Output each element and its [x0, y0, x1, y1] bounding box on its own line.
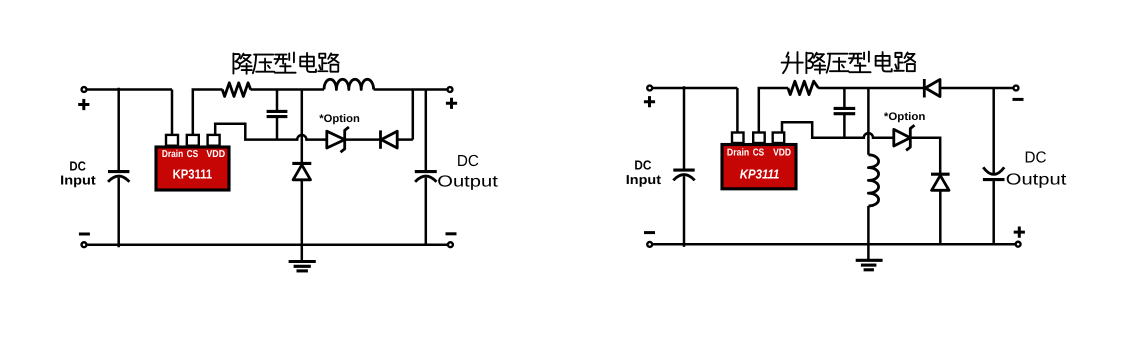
inductor L1	[324, 79, 374, 89]
diode D4 vertical right	[931, 174, 950, 244]
terminal: output plus right	[1016, 242, 1021, 247]
wire: drain riser	[171, 90, 174, 135]
inductor L2 vertical	[868, 155, 878, 206]
title: 降压型电路 (buck circuit)	[233, 52, 338, 73]
wire: switch node drop	[301, 90, 304, 164]
capacitor C4 input right	[673, 170, 694, 247]
label: minus input right	[644, 231, 655, 234]
ground left	[289, 262, 316, 271]
label: *Option left	[319, 113, 360, 125]
svg-text:*Option: *Option	[884, 111, 926, 123]
svg-text:CS: CS	[753, 148, 765, 159]
label: plus input right	[644, 96, 655, 107]
svg-text:VDD: VDD	[773, 148, 791, 159]
capacitor C3 output	[415, 90, 437, 245]
label: minus output	[446, 232, 457, 235]
svg-text:Input: Input	[60, 173, 96, 188]
svg-text:Drain: Drain	[727, 148, 749, 159]
diode D3 output rail	[924, 79, 940, 98]
terminal: DC input +	[82, 87, 87, 92]
terminal: DC output +	[448, 87, 453, 92]
wire: option riser to output	[412, 90, 415, 140]
terminal: DC input + right	[647, 86, 652, 91]
svg-text:Output: Output	[437, 174, 498, 191]
svg-text:KP3111: KP3111	[740, 166, 780, 181]
label: DC Input right	[626, 158, 662, 187]
capacitor C6 output right	[983, 88, 1005, 244]
label: plus output right	[1014, 227, 1025, 238]
label: minus output right	[1013, 98, 1024, 101]
label: plus output	[446, 98, 457, 109]
svg-text:Output: Output	[1006, 171, 1067, 188]
wire: rail diode to terminal right	[940, 87, 1014, 90]
svg-text:*Option: *Option	[319, 113, 360, 125]
IC U2 KP3111	[722, 133, 796, 189]
svg-text:CS: CS	[187, 149, 199, 160]
svg-text:DC: DC	[1025, 150, 1047, 167]
diode D1 freewheel	[292, 163, 311, 261]
svg-text:VDD: VDD	[206, 149, 225, 160]
svg-text:Drain: Drain	[162, 149, 183, 160]
wire: bottom rail right	[652, 243, 1016, 246]
IC U1 KP3111	[156, 135, 229, 190]
wire: drain riser right	[736, 88, 739, 132]
label: DC Input left	[60, 158, 96, 187]
svg-text:DC: DC	[457, 153, 479, 170]
title: 升降压型电路 (buck-boost circuit)	[782, 52, 916, 74]
label: plus input	[78, 99, 89, 110]
resistor R2 sense	[788, 81, 819, 94]
diode D2 option	[381, 130, 413, 148]
resistor R1 sense	[222, 83, 250, 97]
svg-text:Input: Input	[626, 172, 662, 187]
terminal: input minus	[82, 242, 87, 247]
wire: top rail input	[86, 88, 172, 91]
wire: VDD with hop	[215, 124, 327, 140]
capacitor C5 vdd right	[834, 88, 856, 138]
wire: CS riser to resistor	[193, 90, 223, 135]
terminal: output minus right	[1014, 86, 1019, 91]
svg-text:DC: DC	[634, 158, 652, 173]
label: DC Output left	[437, 153, 498, 191]
wire: inductor to ground right	[867, 206, 870, 260]
label: *Option right	[884, 111, 926, 123]
wire: top rail input right	[652, 87, 737, 90]
node: input cap tap	[117, 88, 120, 171]
svg-text:DC: DC	[69, 158, 86, 173]
terminal: input minus right	[647, 242, 652, 247]
ground right	[856, 260, 883, 270]
wire: switch node drop right	[867, 88, 870, 155]
wire: switch node rail	[250, 88, 324, 91]
capacitor C1 input	[108, 172, 129, 248]
svg-text:KP3111: KP3111	[173, 167, 213, 182]
wire: switch node rail right	[818, 87, 924, 90]
node: input cap tap right	[683, 86, 686, 169]
wire: option to D4 right	[910, 138, 940, 175]
wire: CS riser to resistor right	[759, 88, 788, 132]
wire: VDD with hop right	[782, 122, 894, 138]
wire: bottom rail	[86, 243, 448, 246]
label: minus input	[79, 233, 90, 236]
diode ZD1 zener option	[327, 127, 349, 152]
wire: top rail output	[374, 88, 448, 91]
diode ZD2 zener option right	[894, 125, 915, 150]
capacitor C2 vdd	[267, 90, 288, 140]
wire: between option diodes	[345, 138, 381, 141]
terminal: output minus	[448, 242, 453, 247]
label: DC Output right	[1006, 150, 1067, 189]
